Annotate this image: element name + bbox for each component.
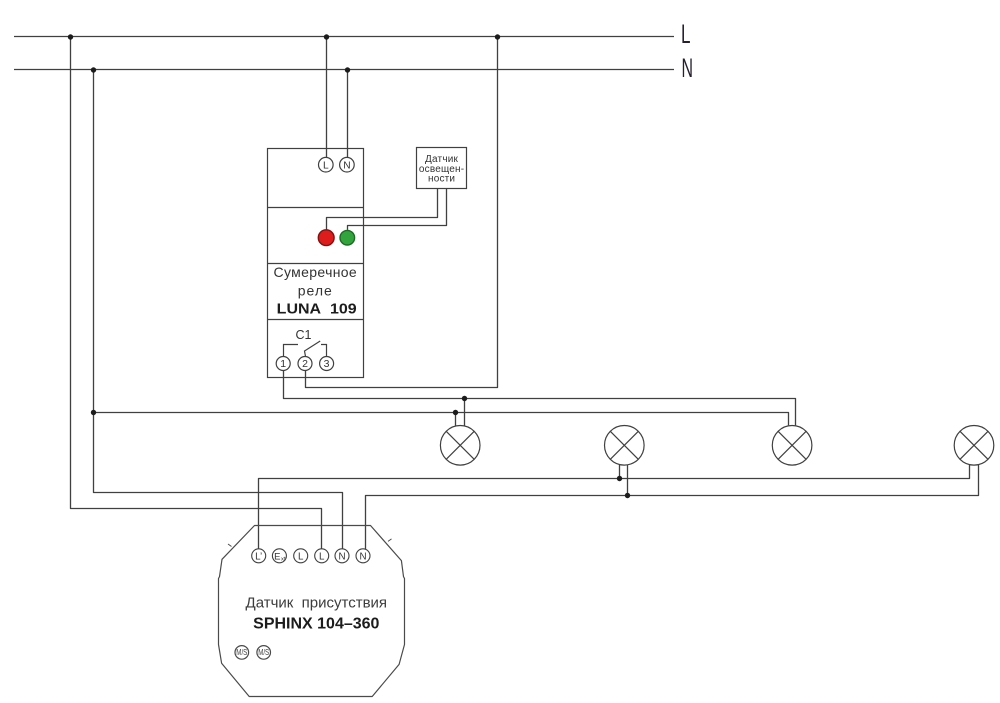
svg-text:E: E	[274, 552, 280, 563]
svg-text:LUNA 109: LUNA 109	[277, 301, 357, 318]
svg-text:L’: L’	[255, 551, 262, 562]
svg-text:Сумеречное: Сумеречное	[274, 264, 358, 280]
svg-text:C1: C1	[296, 328, 312, 342]
svg-text:3: 3	[324, 358, 330, 370]
svg-text:xt: xt	[281, 556, 286, 562]
svg-text:N: N	[682, 53, 694, 83]
svg-text:L: L	[323, 160, 329, 171]
svg-text:M/S: M/S	[258, 648, 269, 657]
svg-text:L: L	[298, 551, 304, 562]
svg-text:2: 2	[302, 358, 308, 370]
svg-text:L: L	[319, 551, 325, 562]
svg-text:SPHINX 104–360: SPHINX 104–360	[253, 616, 379, 633]
svg-text:N: N	[359, 551, 366, 562]
svg-text:реле: реле	[298, 282, 333, 298]
svg-text:N: N	[343, 160, 350, 171]
svg-text:M/S: M/S	[236, 648, 247, 657]
svg-text:ности: ности	[428, 173, 455, 184]
svg-text:N: N	[338, 551, 345, 562]
svg-text:1: 1	[280, 358, 286, 370]
svg-text:L: L	[681, 19, 691, 49]
svg-text:Датчик присутствия: Датчик присутствия	[246, 595, 388, 612]
